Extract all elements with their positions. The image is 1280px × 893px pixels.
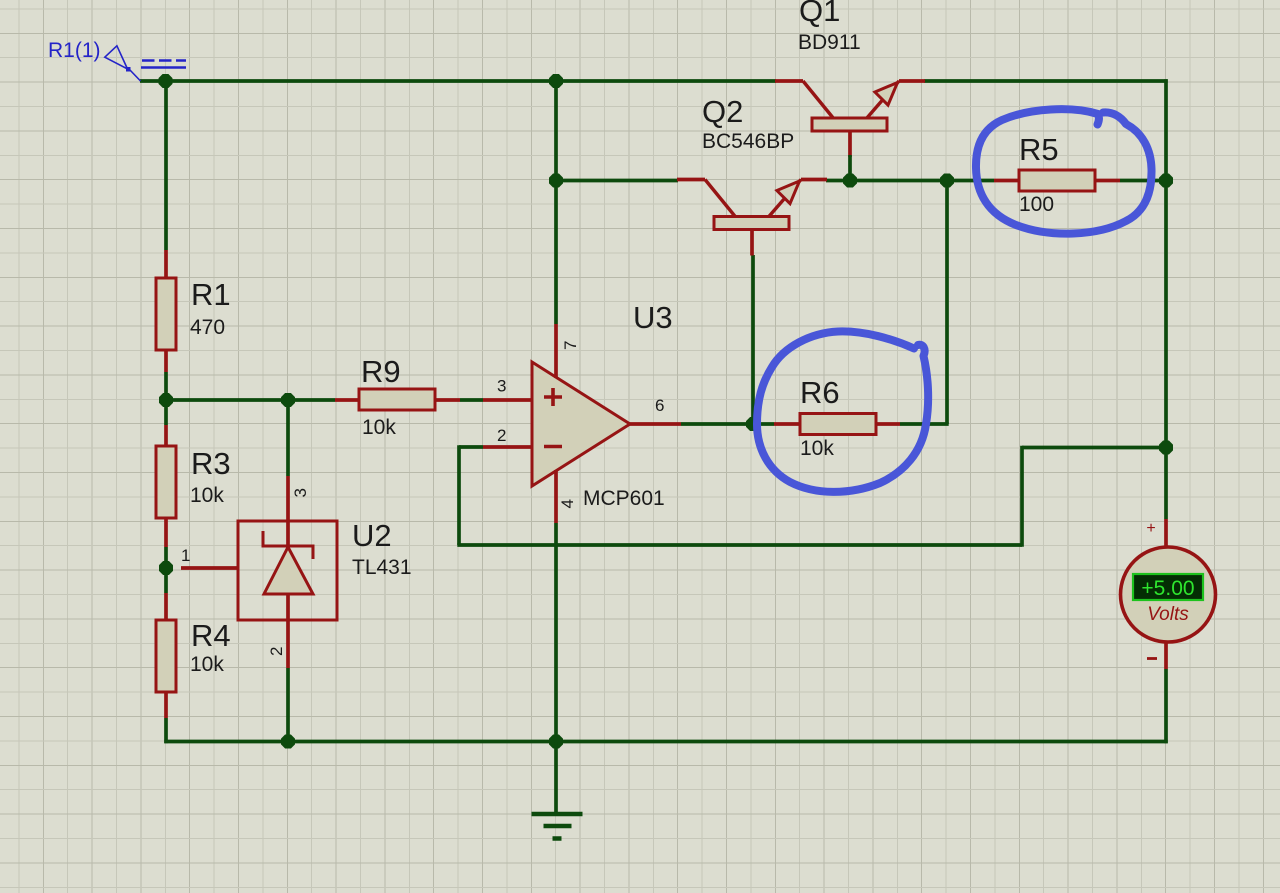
wire feedback bottom horizontal xyxy=(457,543,1022,547)
annotation circle around R5 xyxy=(976,109,1152,233)
svg-text:MCP601: MCP601 xyxy=(583,487,665,510)
wire op-amp pin2 stub xyxy=(459,445,483,449)
svg-text:6: 6 xyxy=(655,396,664,415)
resistor R6 xyxy=(774,375,900,460)
wire R9 to op-amp pin3 xyxy=(460,398,483,402)
resistor R5 xyxy=(994,132,1120,216)
wire voltmeter negative to ground rail xyxy=(1164,669,1168,743)
wire R3 bottom to node xyxy=(164,547,168,593)
wire R4 bottom to ground rail xyxy=(164,718,168,743)
junction node R5 left riser xyxy=(940,174,954,188)
resistor R1 xyxy=(156,250,231,372)
wire node to R6 xyxy=(753,422,774,426)
junction node second rail left xyxy=(549,174,563,188)
svg-text:Q2: Q2 xyxy=(702,94,743,129)
svg-text:Q1: Q1 xyxy=(799,0,840,28)
wire TL431 anode to ground rail xyxy=(286,668,290,742)
svg-text:10k: 10k xyxy=(362,416,396,439)
svg-text:Volts: Volts xyxy=(1147,604,1189,625)
wire riser R6 to second rail xyxy=(945,181,949,425)
junction node supply mid xyxy=(549,74,563,88)
svg-text:10k: 10k xyxy=(190,653,224,676)
svg-text:U2: U2 xyxy=(352,518,392,553)
svg-text:R5: R5 xyxy=(1019,132,1059,167)
wire TL431 ref branch vertical xyxy=(286,400,290,476)
wire left rail R1 top xyxy=(164,81,168,250)
svg-text:4: 4 xyxy=(558,499,577,508)
svg-text:R9: R9 xyxy=(361,354,401,389)
wire Q2 emitter to Q1 base node xyxy=(826,179,994,183)
svg-text:2: 2 xyxy=(267,647,286,656)
svg-text:1: 1 xyxy=(181,546,190,565)
junction node TL431 anode gnd xyxy=(281,735,295,749)
svg-text:BC546BP: BC546BP xyxy=(702,130,794,153)
wire R5 right lead to right rail xyxy=(1120,179,1166,183)
svg-text:10k: 10k xyxy=(190,484,224,507)
voltmeter body xyxy=(1121,520,1216,659)
wire op-amp pin4 down to ground rail xyxy=(554,523,558,742)
svg-text:3: 3 xyxy=(291,488,310,497)
junction node R1/R3 divider xyxy=(159,393,173,407)
wire R6 right to riser xyxy=(900,422,949,426)
voltmeter probe + stub xyxy=(1164,519,1168,548)
svg-text:TL431: TL431 xyxy=(352,556,412,579)
transistor Q1 BD911 xyxy=(775,81,925,157)
svg-text:470: 470 xyxy=(190,316,225,339)
junction node ground rail xyxy=(549,735,563,749)
voltmeter - stub xyxy=(1164,642,1168,669)
junction node supply top-left xyxy=(159,74,173,88)
svg-text:R1: R1 xyxy=(191,277,231,312)
resistor R4 xyxy=(156,593,231,718)
wire node to R9 xyxy=(166,398,335,402)
wire top rail from probe to Q1 collector xyxy=(140,79,776,83)
wire supply vertical x=556 upper xyxy=(554,81,558,324)
svg-text:3: 3 xyxy=(497,377,506,396)
junction node feedback right rail xyxy=(1159,441,1173,455)
junction node Q1 base xyxy=(843,174,857,188)
wire Q2 base down to op-amp output node xyxy=(751,255,755,424)
transistor Q2 BC546BP xyxy=(677,180,827,256)
wire op-amp output to node xyxy=(681,422,753,426)
svg-text:100: 100 xyxy=(1019,193,1054,216)
junction node R3/R4 divider xyxy=(159,561,173,575)
wire R1 bottom to node xyxy=(164,372,168,425)
svg-text:R3: R3 xyxy=(191,446,231,481)
svg-text:+5.00: +5.00 xyxy=(1141,577,1194,600)
svg-text:7: 7 xyxy=(561,341,580,350)
wire right rail vertical xyxy=(1164,79,1168,519)
wire feedback to right rail xyxy=(1022,446,1166,450)
voltage reference U2 TL431 xyxy=(181,476,412,668)
voltage probe R1(1) xyxy=(48,39,186,81)
junction node TL431 ref xyxy=(281,393,295,407)
svg-text:2: 2 xyxy=(497,426,506,445)
ground symbol xyxy=(532,742,583,839)
svg-text:R6: R6 xyxy=(800,375,840,410)
resistor R9 xyxy=(335,354,460,439)
junction node op-amp output xyxy=(746,417,760,431)
wire feedback left vertical xyxy=(457,445,461,545)
annotation circle around R6 xyxy=(757,331,928,491)
op-amp U3 MCP601 xyxy=(483,300,681,523)
wire feedback right vertical xyxy=(1020,446,1024,547)
svg-text:R4: R4 xyxy=(191,618,231,653)
junction node R5 right rail xyxy=(1159,174,1173,188)
svg-text:10k: 10k xyxy=(800,437,834,460)
svg-text:R1(1): R1(1) xyxy=(48,39,101,62)
wire top rail Q1 emitter to top-right corner xyxy=(924,79,1168,83)
wire ground rail bottom xyxy=(164,740,1167,744)
svg-text:+: + xyxy=(1146,520,1155,537)
svg-text:U3: U3 xyxy=(633,300,673,335)
svg-text:BD911: BD911 xyxy=(798,31,861,54)
resistor R3 xyxy=(156,425,231,547)
wire second rail from supply to Q2 collector xyxy=(556,179,678,183)
